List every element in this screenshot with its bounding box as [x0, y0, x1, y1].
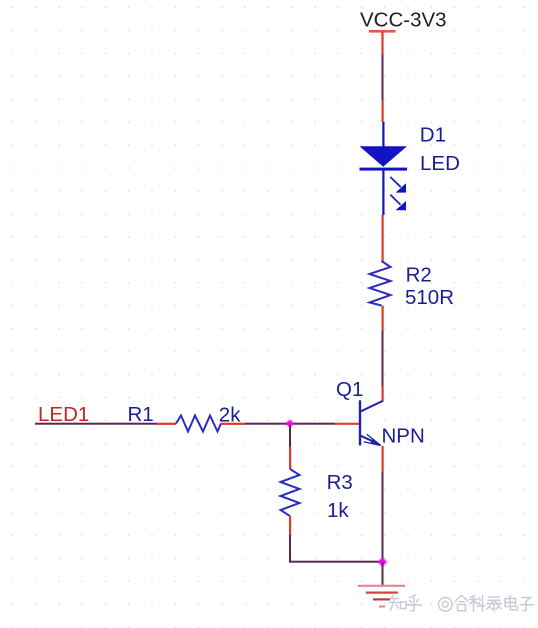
wire VCC to D1: [382, 55, 384, 100]
power port VCC-3V3: [369, 30, 396, 55]
wire bottom horizontal: [289, 561, 382, 563]
ground: [358, 585, 405, 608]
wire junction to Q1 base: [290, 423, 335, 425]
hu: [407, 595, 422, 611]
wire pin into D1: [382, 100, 384, 122]
dian: [505, 596, 518, 610]
wire Q1 emitter down: [382, 446, 384, 562]
svg-text:VCC-3V3: VCC-3V3: [360, 9, 447, 32]
svg-text:NPN: NPN: [382, 425, 425, 448]
svg-text:R3: R3: [327, 471, 353, 494]
svg-text:R2: R2: [406, 264, 432, 287]
watermark: [390, 595, 534, 611]
svg-text:LED: LED: [420, 152, 460, 175]
at sign: [439, 598, 453, 612]
junction node ground: [378, 557, 387, 566]
zi: [520, 598, 534, 611]
wire junction down to R3: [289, 425, 291, 469]
wire pin right of R1: [221, 423, 245, 425]
LED D1: [360, 122, 408, 215]
wire R3 to bottom rail: [289, 516, 291, 562]
svg-text:Q1: Q1: [336, 378, 363, 401]
svg-text:R1: R1: [128, 403, 154, 426]
resistor R3: [281, 469, 300, 516]
svg-text:1k: 1k: [327, 499, 349, 522]
transistor Q1: [359, 400, 383, 446]
wire D1 to R2: [382, 215, 384, 261]
junction node base: [286, 419, 294, 427]
resistor R2: [370, 261, 391, 306]
svg-text:D1: D1: [420, 124, 446, 147]
he: [455, 596, 468, 611]
wire R1 to junction: [245, 423, 290, 425]
wire R2 to Q1 collector: [382, 306, 384, 403]
tai: [487, 597, 502, 611]
svg-text:510R: 510R: [405, 286, 454, 309]
zhi: [390, 596, 407, 611]
wire pin left of R1: [157, 423, 176, 425]
wire junction to ground: [382, 563, 384, 585]
ke: [470, 596, 485, 612]
wire pin into base: [335, 423, 359, 425]
wire LED1 net: [35, 423, 157, 425]
resistor R1: [176, 416, 221, 432]
